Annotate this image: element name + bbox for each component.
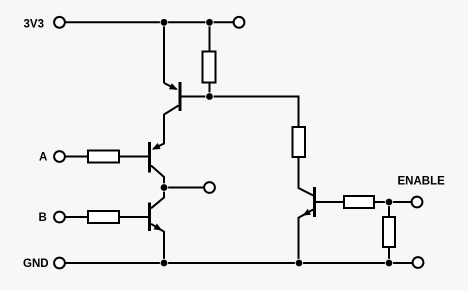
wire 3V3 rail to Q1 emitter — [163, 22, 165, 83]
resistor R4 enable pull-down — [383, 217, 395, 247]
wire 3V3 rail to R1 top — [209, 22, 211, 52]
wire input B terminal to resistor — [66, 216, 89, 218]
svg-text:3V3: 3V3 — [24, 19, 44, 31]
wire R4 bottom to ground rail — [388, 247, 390, 264]
wire node to middle terminal — [164, 187, 204, 189]
transistor Q3 base bar (input B) — [148, 203, 151, 232]
wire 3V3 top rail — [66, 21, 234, 23]
transistor Q4 emitter arrow — [302, 209, 311, 216]
terminal ENABLE — [412, 197, 423, 208]
wire Q2 collector to node — [151, 166, 164, 188]
node Q1 base / R1 bottom — [206, 93, 214, 101]
terminal top right output — [234, 17, 245, 28]
node 3V3 rail / R1 — [206, 19, 214, 27]
terminal 3V3 input — [54, 17, 65, 28]
wire Q1 emitter from 3V3 — [164, 83, 177, 89]
node 3V3 rail / Q1 emitter — [160, 19, 168, 27]
transistor Q2 base bar (input A) — [148, 142, 151, 173]
wire Q3 emitter to ground rail — [151, 224, 164, 263]
wire node to Q3 collector — [151, 188, 164, 209]
resistor pull-up R1 — [203, 52, 216, 83]
svg-text:GND: GND — [23, 258, 49, 270]
transistor Q4 base bar (enable NPN) — [313, 187, 316, 217]
resistor R2 Q4 collector — [293, 127, 306, 157]
resistor input B — [88, 211, 119, 223]
transistor Q1 emitter arrow — [169, 83, 178, 90]
node ENABLE / R4 top — [385, 198, 393, 206]
node ground / Q3 emitter — [160, 259, 168, 267]
terminal input B — [54, 212, 65, 223]
resistor R3 enable series — [344, 196, 374, 208]
wire GND bottom rail — [66, 262, 413, 264]
wire R2 bottom to Q4 collector — [299, 157, 314, 196]
wire Q1 base to R2 top — [181, 97, 299, 128]
node ground / Q4 emitter — [295, 259, 303, 267]
svg-text:A: A — [39, 152, 47, 164]
resistor input A — [88, 151, 119, 163]
wire resistor A to Q2 base — [119, 156, 149, 158]
wire R3 to ENABLE terminal — [374, 201, 412, 203]
wire resistor B to Q3 base — [119, 216, 149, 218]
wire R1 bottom to base node — [209, 82, 211, 97]
node ground / R4 bottom — [385, 259, 393, 267]
node Q2-Q3 junction — [160, 184, 168, 192]
terminal middle output — [204, 182, 215, 193]
wire input A terminal to resistor — [66, 156, 89, 158]
wire Q4 emitter to ground rail — [299, 210, 314, 264]
transistor Q3 emitter arrow — [154, 224, 163, 231]
wire Q1 collector to Q2 emitter — [154, 106, 179, 149]
terminal input A — [54, 151, 65, 162]
terminal GND — [54, 258, 65, 269]
transistor Q1 base bar (PNP, emitter to 3V3) — [179, 82, 182, 111]
svg-text:B: B — [39, 212, 47, 224]
wire Q4 base to R3 — [316, 201, 345, 203]
transistor Q2 emitter arrow — [152, 143, 161, 150]
svg-text:ENABLE: ENABLE — [398, 176, 446, 188]
terminal bottom right — [413, 257, 424, 268]
wire ENABLE node to R4 top — [388, 202, 390, 218]
